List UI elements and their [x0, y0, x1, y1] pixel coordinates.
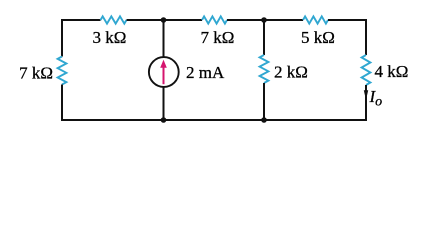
- current source arrow: [163, 65, 165, 85]
- wire left branch upper: [61, 19, 63, 57]
- svg-text:7 kΩ: 7 kΩ: [201, 28, 235, 47]
- node junction bottom B: [261, 117, 267, 123]
- wire 5k to top-right corner: [328, 19, 366, 21]
- resistor 5 kOhm zigzag: [303, 16, 328, 23]
- node junction top B: [261, 17, 267, 23]
- wire top-left corner to 3k: [62, 19, 101, 21]
- wire 2k branch upper: [263, 20, 265, 55]
- node junction bottom A: [161, 117, 167, 123]
- arrowhead Io current direction: [364, 90, 368, 100]
- resistor 2 kOhm vertical zigzag: [260, 55, 269, 83]
- resistor 7 kOhm top zigzag: [202, 16, 227, 23]
- wire source branch lower: [163, 87, 165, 121]
- svg-text:4 kΩ: 4 kΩ: [375, 62, 409, 81]
- wire 7k to 5k top: [227, 19, 303, 21]
- svg-text:Io: Io: [369, 87, 383, 110]
- wire left branch lower: [61, 85, 63, 122]
- wire source branch upper: [163, 20, 165, 58]
- wire 3k to 7k top: [127, 19, 203, 21]
- wire right branch lower: [365, 85, 367, 121]
- svg-text:2 kΩ: 2 kΩ: [274, 63, 308, 82]
- svg-text:7 kΩ: 7 kΩ: [19, 64, 53, 83]
- svg-text:2 mA: 2 mA: [186, 63, 225, 82]
- svg-text:3 kΩ: 3 kΩ: [93, 28, 127, 47]
- svg-text:5 kΩ: 5 kΩ: [301, 28, 335, 47]
- resistor 4 kOhm vertical zigzag: [362, 55, 371, 85]
- wire bottom: [62, 119, 366, 121]
- resistor 3 kOhm zigzag: [101, 16, 127, 23]
- node junction top A: [161, 17, 167, 23]
- current source 2mA circle: [149, 57, 179, 87]
- wire right branch upper: [365, 19, 367, 55]
- wire 2k branch lower: [263, 83, 265, 120]
- resistor 7 kOhm left vertical zigzag: [58, 57, 67, 85]
